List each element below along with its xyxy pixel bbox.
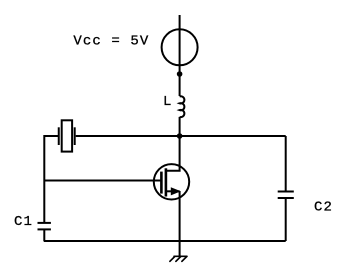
transistor Q1 channel bar bbox=[165, 168, 168, 196]
transistor Q1 gate bar bbox=[160, 172, 163, 194]
svg-text:Vcc = 5V: Vcc = 5V bbox=[73, 34, 149, 50]
wire: right rail down to C2 bbox=[285, 136, 287, 191]
transistor Q1 source line with arrow bbox=[166, 190, 180, 192]
inductor L coil bbox=[180, 96, 185, 117]
capacitor C2 bottom plate bbox=[278, 197, 294, 199]
wire: drain connection from mid junction into MOSFET bbox=[166, 136, 180, 171]
wire: gate wire from left rail to MOSFET gate bbox=[44, 180, 160, 182]
crystal X1 body bbox=[62, 120, 72, 151]
crystal X1 left wire bbox=[44, 136, 58, 222]
capacitor C1 bottom plate bbox=[38, 228, 51, 230]
svg-text:C1: C1 bbox=[14, 214, 33, 230]
wire: bottom rail bbox=[44, 240, 286, 242]
ground symbol bbox=[170, 256, 187, 261]
svg-text:L: L bbox=[163, 94, 173, 110]
crystal X1 left plate bbox=[58, 127, 60, 145]
capacitor C1 top plate bbox=[38, 222, 51, 224]
node: junction dot below Vcc source bbox=[177, 71, 183, 77]
crystal X1 right plate bbox=[74, 127, 76, 145]
node: mid junction dot bbox=[177, 133, 183, 139]
wire: top stub through Vcc source down to inductor top bbox=[179, 15, 181, 96]
Vcc source circle V1 bbox=[162, 29, 198, 65]
capacitor C2 top plate bbox=[278, 191, 294, 193]
wire: mid horizontal rail from crystal to C2 bbox=[76, 135, 286, 137]
wire: C1 bottom to bottom rail bbox=[43, 230, 45, 241]
svg-text:C2: C2 bbox=[314, 199, 333, 215]
wire: inductor bottom to mid junction bbox=[179, 117, 181, 136]
wire: source down to bottom rail and ground stub bbox=[179, 191, 181, 256]
wire: C2 bottom to bottom rail bbox=[285, 199, 287, 242]
transistor Q1 MOSFET circle bbox=[154, 164, 189, 199]
